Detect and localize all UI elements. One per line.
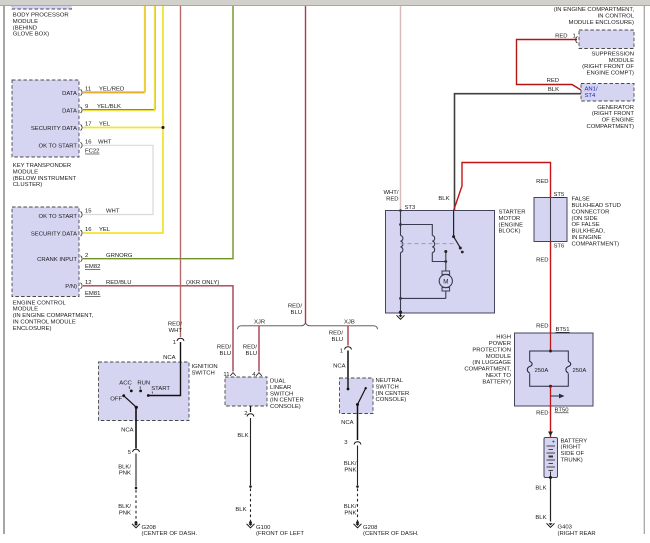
svg-text:BLK: BLK [535,486,546,492]
svg-text:BLK: BLK [535,515,546,521]
svg-text:CLUSTER): CLUSTER) [13,182,42,188]
svg-text:1: 1 [573,34,576,40]
svg-text:(ENGINE: (ENGINE [499,222,524,228]
svg-text:16: 16 [85,227,92,233]
svg-text:IN CONTROL MODULE: IN CONTROL MODULE [13,320,76,326]
svg-text:FC22: FC22 [85,149,99,155]
svg-text:NEUTRAL: NEUTRAL [376,378,404,384]
fuse 250A right [566,362,571,374]
svg-text:TRUNK): TRUNK) [561,458,583,464]
svg-text:RED: RED [536,411,548,417]
svg-text:YEL/RED: YEL/RED [99,87,124,93]
svg-text:ENGINE COMPT): ENGINE COMPT) [587,71,634,77]
switch lever [124,396,137,408]
svg-text:BLU: BLU [220,351,231,357]
svg-text:OF FALSE: OF FALSE [572,222,600,228]
wire BLK battery negative to ground G403 [535,476,595,537]
window right border [643,6,645,535]
svg-text:SWITCH: SWITCH [192,370,215,376]
svg-text:BLK: BLK [237,433,248,439]
svg-text:COMPARTMENT): COMPARTMENT) [572,241,620,247]
svg-text:NCA: NCA [163,355,176,361]
wire YEL pin 17 + vertical to pin 16 of ECM [81,6,164,236]
svg-text:BT50: BT50 [555,408,570,414]
svg-text:POWER: POWER [489,341,511,347]
wire RED/BLU pin 12 (XKR only) down to dual linear switch pin 11 [81,280,236,378]
wire RED/WHT vertical [180,6,182,337]
svg-text:XJB: XJB [344,320,355,326]
svg-text:PNK: PNK [344,510,356,516]
svg-text:NEXT TO: NEXT TO [486,373,512,379]
svg-text:YEL/BLK: YEL/BLK [97,104,121,110]
svg-text:11: 11 [85,87,91,93]
svg-text:PNK: PNK [344,468,356,474]
wire RED/BLU vertical [305,6,307,323]
svg-text:BODY PROCESSOR: BODY PROCESSOR [13,13,69,19]
ground G208 right [354,524,362,528]
svg-text:+: + [552,439,555,445]
svg-text:OK TO START: OK TO START [38,214,77,220]
mechanical link dashed [401,243,456,245]
svg-text:WHT/: WHT/ [383,190,398,196]
fuse 250A left [527,362,532,374]
svg-text:BULKHEAD STUD: BULKHEAD STUD [572,203,621,209]
svg-text:(IN LUGGAGE: (IN LUGGAGE [472,360,511,366]
svg-text:RED/: RED/ [288,303,302,309]
ground G403 [547,523,555,527]
wire dual linear output pin 2 to ground G100 [235,406,304,537]
svg-text:OFF: OFF [110,396,122,402]
svg-text:ST4: ST4 [585,93,597,99]
svg-text:KEY TRANSPONDER: KEY TRANSPONDER [13,163,71,169]
svg-text:250A: 250A [573,368,587,374]
svg-text:2: 2 [85,253,88,259]
svg-text:(RIGHT: (RIGHT [561,445,582,451]
svg-text:ENGINE CONTROL: ENGINE CONTROL [13,300,67,306]
svg-text:NCA: NCA [333,364,346,370]
ground starter [397,313,405,319]
svg-text:(IN CENTER: (IN CENTER [270,398,304,404]
svg-text:G208: G208 [363,525,378,531]
ground G100 [247,524,255,528]
svg-text:OF ENGINE: OF ENGINE [602,118,634,124]
svg-text:BLK/: BLK/ [118,504,131,510]
svg-text:GLOVE BOX): GLOVE BOX) [13,32,49,38]
svg-text:RED: RED [547,78,559,84]
svg-text:HIGH: HIGH [496,335,511,341]
svg-text:(RIGHT FRONT OF: (RIGHT FRONT OF [582,64,634,70]
svg-text:ST6: ST6 [554,244,566,250]
svg-text:BATTERY: BATTERY [561,438,588,444]
svg-text:RED/BLU: RED/BLU [106,280,132,286]
svg-text:M: M [443,279,448,286]
svg-text:BLK/: BLK/ [118,464,131,470]
svg-text:OK TO START: OK TO START [38,144,77,150]
branch bus line [238,323,378,329]
svg-text:SWITCH: SWITCH [376,384,399,390]
svg-text:CONNECTOR: CONNECTOR [572,209,610,215]
wire RED feed from false bulkhead to starter [454,163,551,211]
svg-text:G403: G403 [558,525,573,531]
svg-text:RED/: RED/ [329,330,343,336]
svg-text:IGNITION: IGNITION [192,364,218,370]
svg-text:BLU: BLU [291,310,302,316]
wire GRN/ORG pin 2 crank input [81,6,234,270]
svg-text:(XKR ONLY): (XKR ONLY) [186,280,219,286]
svg-text:MODULE: MODULE [486,354,511,360]
svg-text:BLK/: BLK/ [344,461,357,467]
svg-text:SECURITY DATA: SECURITY DATA [31,126,77,132]
svg-text:G208: G208 [142,525,157,531]
svg-text:1: 1 [340,349,343,355]
svg-text:MODULE: MODULE [13,169,38,175]
body processor module (cut off at top) [12,0,72,38]
svg-text:WHT: WHT [169,328,183,334]
svg-text:12: 12 [85,280,92,286]
svg-text:RED/: RED/ [217,344,231,350]
svg-text:EM82: EM82 [85,264,100,270]
svg-text:(RIGHT REAR: (RIGHT REAR [558,531,596,537]
svg-text:RED: RED [536,179,548,185]
wire ignition output to ground G208 [118,407,197,537]
svg-text:CONSOLE): CONSOLE) [270,404,301,410]
svg-text:BLOCK): BLOCK) [499,229,521,235]
svg-text:RED: RED [386,196,398,202]
svg-text:FALSE: FALSE [572,197,590,203]
svg-text:DATA: DATA [62,108,77,114]
svg-text:RED/: RED/ [243,344,257,350]
suppression module box [579,30,634,77]
svg-text:YEL: YEL [99,122,111,128]
svg-text:LINEAR: LINEAR [270,385,291,391]
svg-text:BLU: BLU [332,337,343,343]
arrow out [551,395,560,397]
starter internals [399,209,464,314]
svg-text:PROTECTION: PROTECTION [472,347,511,353]
svg-text:16: 16 [85,140,92,146]
wire RED BT50 to battery [536,406,569,438]
svg-text:PNK: PNK [119,471,131,477]
svg-text:SIDE OF: SIDE OF [561,451,585,457]
wire XJR branch RED/BLU to dual linear pin 4 [243,326,262,378]
svg-text:ENCLOSURE): ENCLOSURE) [13,326,52,332]
svg-text:250A: 250A [535,368,549,374]
svg-text:SWITCH: SWITCH [270,391,293,397]
key transponder module [12,80,79,188]
wire blk into neutral switch [347,351,349,390]
svg-text:P/N): P/N) [65,284,77,290]
svg-text:CONSOLE): CONSOLE) [376,397,407,403]
generator box AN1/ST4 [581,84,634,131]
svg-text:15: 15 [85,209,92,215]
svg-text:RUN: RUN [137,380,150,386]
svg-text:BLK: BLK [235,507,246,513]
svg-text:(ON SIDE: (ON SIDE [572,216,598,222]
wire XJB branch RED/BLU to neutral switch pin 1 [329,326,352,389]
svg-text:NCA: NCA [121,428,134,434]
engine control module [12,207,93,332]
svg-text:SECURITY DATA: SECURITY DATA [31,231,77,237]
junction dot on YEL [162,126,165,129]
svg-text:WHT: WHT [106,209,120,215]
wire YEL/BLK pin 9 [81,6,156,113]
wire RED from ST6 to high power protection module [536,198,570,334]
node: feed junction [399,209,402,212]
svg-text:YEL: YEL [99,227,111,233]
svg-text:WHT: WHT [98,140,112,146]
svg-text:BLK/: BLK/ [344,504,357,510]
wire blk into ignition switch [148,342,180,396]
svg-text:MODULE ENCLOSURE): MODULE ENCLOSURE) [569,20,634,26]
svg-text:XJR: XJR [254,320,265,326]
solenoid hold-in coil [432,236,434,253]
svg-text:BT51: BT51 [556,327,570,333]
window top bar [0,0,650,5]
svg-text:BLK: BLK [438,196,449,202]
svg-text:MODULE: MODULE [13,307,38,313]
svg-text:IN CONTROL: IN CONTROL [598,13,635,19]
wire RED suppression to generator [517,34,582,91]
hppm internals [527,333,586,406]
solenoid pull-in coil [401,236,403,253]
svg-text:PNK: PNK [119,510,131,516]
window left border [3,6,5,535]
svg-text:(IN ENGINE COMPARTMENT,: (IN ENGINE COMPARTMENT, [13,313,94,319]
svg-text:ST5: ST5 [554,192,566,198]
solenoid switch contacts [453,211,455,237]
svg-text:(BELOW INSTRUMENT: (BELOW INSTRUMENT [13,176,77,182]
svg-text:BLK: BLK [548,87,559,93]
svg-text:G100: G100 [256,525,271,531]
svg-text:(IN CENTER: (IN CENTER [376,391,410,397]
fuse network rect [530,351,551,386]
svg-text:IN ENGINE: IN ENGINE [572,235,602,241]
svg-text:COMPARTMENT,: COMPARTMENT, [464,367,511,373]
svg-text:(FRONT OF LEFT: (FRONT OF LEFT [256,531,304,537]
wire WHT loop pin16 KTM to pin15 ECM [81,140,154,218]
svg-text:(CENTER OF DASH.: (CENTER OF DASH. [142,531,198,537]
svg-text:RED: RED [555,34,567,40]
svg-text:BLU: BLU [246,351,257,357]
svg-text:CRANK INPUT: CRANK INPUT [37,257,77,263]
wire pull-in coil down to motor bus [400,253,402,299]
svg-text:1: 1 [173,340,176,346]
svg-text:(CENTER OF DASH.: (CENTER OF DASH. [363,531,419,537]
svg-text:GENERATOR: GENERATOR [597,105,634,111]
motor M [442,271,450,274]
svg-text:RED: RED [536,324,548,330]
svg-text:(RIGHT FRONT: (RIGHT FRONT [592,111,635,117]
svg-text:BULKHEAD,: BULKHEAD, [572,229,606,235]
svg-text:(IN ENGINE COMPARTMENT,: (IN ENGINE COMPARTMENT, [554,7,635,13]
switch lever [358,389,366,405]
svg-text:START: START [151,386,170,392]
svg-text:COMPARTMENT): COMPARTMENT) [586,124,634,130]
wire YEL/RED pin 11 [81,6,146,96]
svg-text:SUPPRESSION: SUPPRESSION [591,51,634,57]
wire BLK generator feed [438,87,581,211]
wire to hold-in coil [401,225,433,236]
svg-text:9: 9 [85,104,88,110]
svg-text:GRNORG: GRNORG [106,253,133,259]
wire motor return [401,297,446,299]
svg-text:17: 17 [85,122,92,128]
svg-text:RED: RED [536,258,548,264]
svg-text:AN1/: AN1/ [585,87,598,93]
svg-text:MODULE: MODULE [13,19,38,25]
wire hold-in coil to contact stud [432,253,446,262]
wire neutral switch output pin 3 to ground G208 [341,405,419,538]
svg-text:ACC: ACC [119,380,132,386]
svg-text:NCA: NCA [341,420,354,426]
svg-text:STARTER: STARTER [499,210,526,216]
svg-text:DUAL: DUAL [270,379,286,385]
svg-text:MOTOR: MOTOR [499,216,521,222]
ground G208 [132,524,140,528]
svg-text:DATA: DATA [62,91,77,97]
svg-text:(BEHIND: (BEHIND [13,25,37,31]
svg-text:BATTERY): BATTERY) [482,379,511,385]
svg-text:EM81: EM81 [85,291,100,297]
svg-text:RED/: RED/ [168,321,182,327]
svg-text:MODULE: MODULE [609,58,634,64]
